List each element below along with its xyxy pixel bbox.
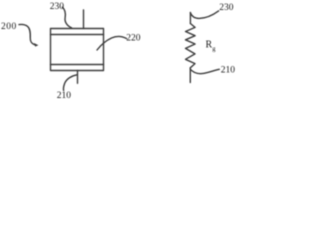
svg-text:g: g xyxy=(212,46,216,53)
svg-text:230: 230 xyxy=(219,3,234,13)
svg-text:200: 200 xyxy=(1,22,17,32)
svg-text:230: 230 xyxy=(50,2,65,12)
svg-text:220: 220 xyxy=(126,34,141,44)
svg-text:210: 210 xyxy=(57,91,72,99)
svg-text:210: 210 xyxy=(221,65,236,75)
